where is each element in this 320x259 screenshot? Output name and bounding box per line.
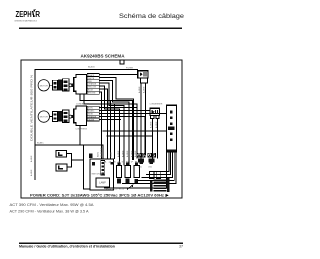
wire from left border at y145 [35, 145, 103, 159]
svg-text:CN6: CN6 [148, 167, 152, 169]
diagonal arrow pointer [127, 185, 133, 189]
svg-text:CONDENSER: CONDENSER [150, 103, 163, 105]
connector plug X1 [138, 159, 144, 165]
switch S1 [117, 163, 120, 166]
svg-text:K1 K2 K3: K1 K2 K3 [106, 189, 124, 191]
lamp box [96, 178, 110, 187]
connector receptacle J1 [63, 79, 70, 91]
svg-text:DOUBLE VENTILATEUR 850 PRO N: DOUBLE VENTILATEUR 850 PRO N [30, 75, 34, 141]
pcb bits [92, 162, 95, 166]
svg-text:RED: RED [88, 81, 93, 83]
svg-text:SWITCH ASSY: SWITCH ASSY [92, 173, 106, 176]
inner schematic box (open right side) [35, 70, 138, 181]
switch S2 [126, 163, 129, 166]
svg-text:BLACK: BLACK [88, 74, 95, 77]
connector block black [58, 80, 62, 91]
terminal pin boxes row [137, 153, 155, 157]
wires lamp plugs joining [66, 154, 71, 167]
svg-text:YELLOW: YELLOW [88, 87, 96, 89]
motor M2 [38, 111, 49, 122]
label cells CN2 [87, 106, 99, 121]
svg-text:CONDENSER: CONDENSER [76, 104, 89, 106]
svg-text:A-LINE: A-LINE [131, 150, 134, 157]
inner box bottom border [104, 150, 166, 188]
svg-text:JAUNE: JAUNE [88, 118, 95, 121]
CN3 wires staircase [122, 152, 176, 184]
svg-text:ACT 390 CFM - Ventilateur Max.: ACT 390 CFM - Ventilateur Max. 95W @ 4.5… [10, 203, 94, 207]
wire labels CN2 [88, 108, 97, 122]
lamp plug L2 [56, 164, 67, 171]
svg-text:A-LINE: A-LINE [155, 121, 158, 128]
svg-text:BLACK: BLACK [88, 65, 95, 68]
pin into housing [72, 84, 75, 87]
connector plug X2 [148, 159, 154, 165]
svg-text:Schéma de câblage: Schéma de câblage [119, 13, 184, 20]
svg-text:A-LINE: A-LINE [126, 150, 129, 157]
terminal block bars [154, 180, 167, 182]
pcb connector strip [101, 161, 105, 176]
svg-text:WHITE: WHITE [88, 78, 95, 80]
wire motor1 to connector [50, 84, 53, 86]
D2 pins down [151, 116, 154, 119]
svg-text:BLEU: BLEU [98, 151, 100, 157]
D1 pins down [140, 78, 147, 83]
right connector housing CN3 [167, 105, 177, 152]
svg-text:BLANC: BLANC [88, 110, 95, 113]
svg-text:LAMP: LAMP [99, 182, 106, 185]
stubs below X connectors [150, 172, 155, 179]
connector housing CN2 [74, 106, 87, 126]
small component on pcb top [89, 154, 93, 159]
connector receptacle J2 [63, 110, 70, 122]
svg-text:A-LINE: A-LINE [134, 150, 137, 157]
pin into housing 2 [72, 115, 75, 118]
svg-text:DESIGNED IN SAN FRANCISCO: DESIGNED IN SAN FRANCISCO [15, 19, 38, 22]
svg-text:POWER CORD: SJT 3x18AWG 105°C: POWER CORD: SJT 3x18AWG 105°C 250Vac 3PC… [30, 193, 164, 197]
svg-text:MOTOR: MOTOR [40, 85, 49, 87]
connector housing CN1 [74, 75, 87, 95]
svg-text:MOTOR: MOTOR [40, 117, 49, 119]
connector plug P1 [53, 80, 58, 90]
svg-text:NOIR: NOIR [88, 114, 93, 116]
switch S3 [135, 163, 138, 166]
stub into pcb [110, 100, 112, 159]
svg-text:ORANGE: ORANGE [88, 115, 97, 118]
connector plug P2 [53, 112, 58, 122]
connector block black 2 [58, 111, 62, 122]
svg-text:A-LINE: A-LINE [30, 169, 33, 176]
svg-text:BLANC: BLANC [37, 142, 44, 145]
header rule [19, 27, 182, 29]
wires from CN1 cells routed right/down (nested staircase) [99, 75, 138, 166]
vertical drop to pcb [84, 145, 90, 189]
svg-text:A-LINE: A-LINE [117, 150, 120, 157]
svg-text:CN5: CN5 [138, 167, 142, 169]
svg-text:AK9240BS SCHEMA: AK9240BS SCHEMA [81, 54, 125, 59]
svg-text:BROWN: BROWN [88, 93, 96, 95]
svg-text:37: 37 [179, 245, 183, 249]
motor M1 [38, 80, 49, 91]
outer frame [21, 60, 182, 198]
svg-text:A-LINE: A-LINE [122, 150, 125, 157]
label cells CN1 [87, 74, 99, 95]
svg-text:ACT 290 CFM - Ventilateur Max.: ACT 290 CFM - Ventilateur Max. 38 W @ 3.… [10, 210, 89, 214]
arrowhead after power text [165, 194, 168, 198]
svg-text:Manuale / Guide d'utilisation,: Manuale / Guide d'utilisation, d'entreti… [19, 245, 115, 249]
svg-text:A-LINE: A-LINE [30, 155, 33, 162]
wire motor2 to connector [50, 116, 53, 118]
wires from CN2 cells [99, 108, 166, 155]
joint oval 2 [69, 115, 72, 118]
rotated labels mid verticals [98, 147, 138, 157]
diode box D1 [138, 71, 148, 78]
terminal block vertical bar [150, 181, 152, 192]
svg-text:NOIR: NOIR [111, 151, 113, 157]
small box on frame top [120, 60, 124, 64]
wire labels CN1 [88, 74, 97, 95]
left loop wires upper [80, 94, 137, 160]
svg-text:A-LINE: A-LINE [138, 86, 141, 93]
svg-text:FILTER: FILTER [126, 67, 134, 69]
diode box D2 [150, 108, 160, 115]
right edge bar [167, 178, 170, 192]
svg-text:R: R [35, 9, 40, 19]
svg-text:BLUE: BLUE [88, 90, 94, 92]
svg-text:BLEU: BLEU [88, 108, 94, 110]
mid horizontal bus [103, 130, 167, 132]
joint oval [69, 84, 72, 87]
svg-text:A-LINE: A-LINE [150, 121, 153, 128]
lamp plug L1 [56, 151, 67, 157]
footer rule [19, 243, 183, 244]
control PCB box [90, 159, 114, 190]
svg-text:COMPRESS: COMPRESS [76, 128, 88, 130]
leg below CN2 [79, 126, 81, 146]
svg-text:ZEPH: ZEPH [16, 9, 32, 19]
svg-text:A-LINE: A-LINE [143, 86, 146, 93]
svg-text:ORANGE: ORANGE [88, 83, 97, 86]
logo flame Y [32, 11, 35, 17]
